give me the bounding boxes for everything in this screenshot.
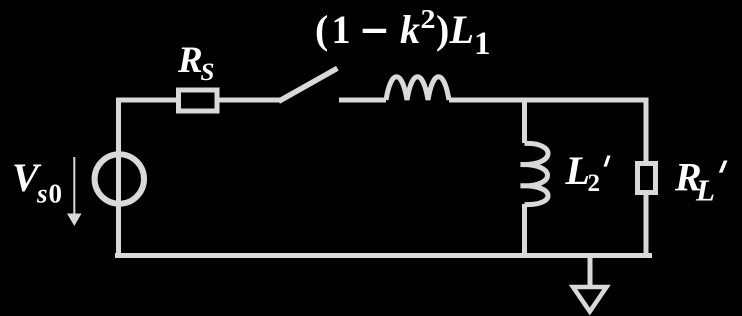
voltage source V_s0 <box>95 154 144 203</box>
resistor R_S <box>179 90 218 111</box>
inductor L2' coil <box>521 143 549 204</box>
wire R_L' bottom to bottom rail <box>644 193 649 256</box>
svg-text:L2: L2 <box>565 148 601 197</box>
wire L2 branch top <box>522 98 527 144</box>
inductor (1-k^2)L1 <box>386 77 449 100</box>
ground stem <box>588 255 593 287</box>
label R_L' <box>719 161 728 173</box>
resistor R_L' <box>638 164 656 193</box>
svg-text:(1k2)L1: (1k2)L1 <box>315 4 491 62</box>
wire left vertical (source branch) <box>116 100 121 255</box>
svg-text:RL: RL <box>674 155 715 208</box>
svg-text:Vs0: Vs0 <box>12 155 62 209</box>
wire from R_S to switch <box>220 98 282 103</box>
wire inductor to right corner and down <box>449 98 648 164</box>
label L2' <box>604 156 611 167</box>
arrow for V_s0 <box>73 157 75 214</box>
wire bottom rail <box>115 253 652 258</box>
wire switch right contact <box>339 98 386 103</box>
wire L2 branch bottom <box>522 204 527 255</box>
svg-text:RS: RS <box>177 40 214 86</box>
label (1-k^2)L1 <box>363 29 387 33</box>
switch blade <box>281 70 335 100</box>
wire top left segment <box>116 98 177 103</box>
ground triangle <box>573 287 607 312</box>
